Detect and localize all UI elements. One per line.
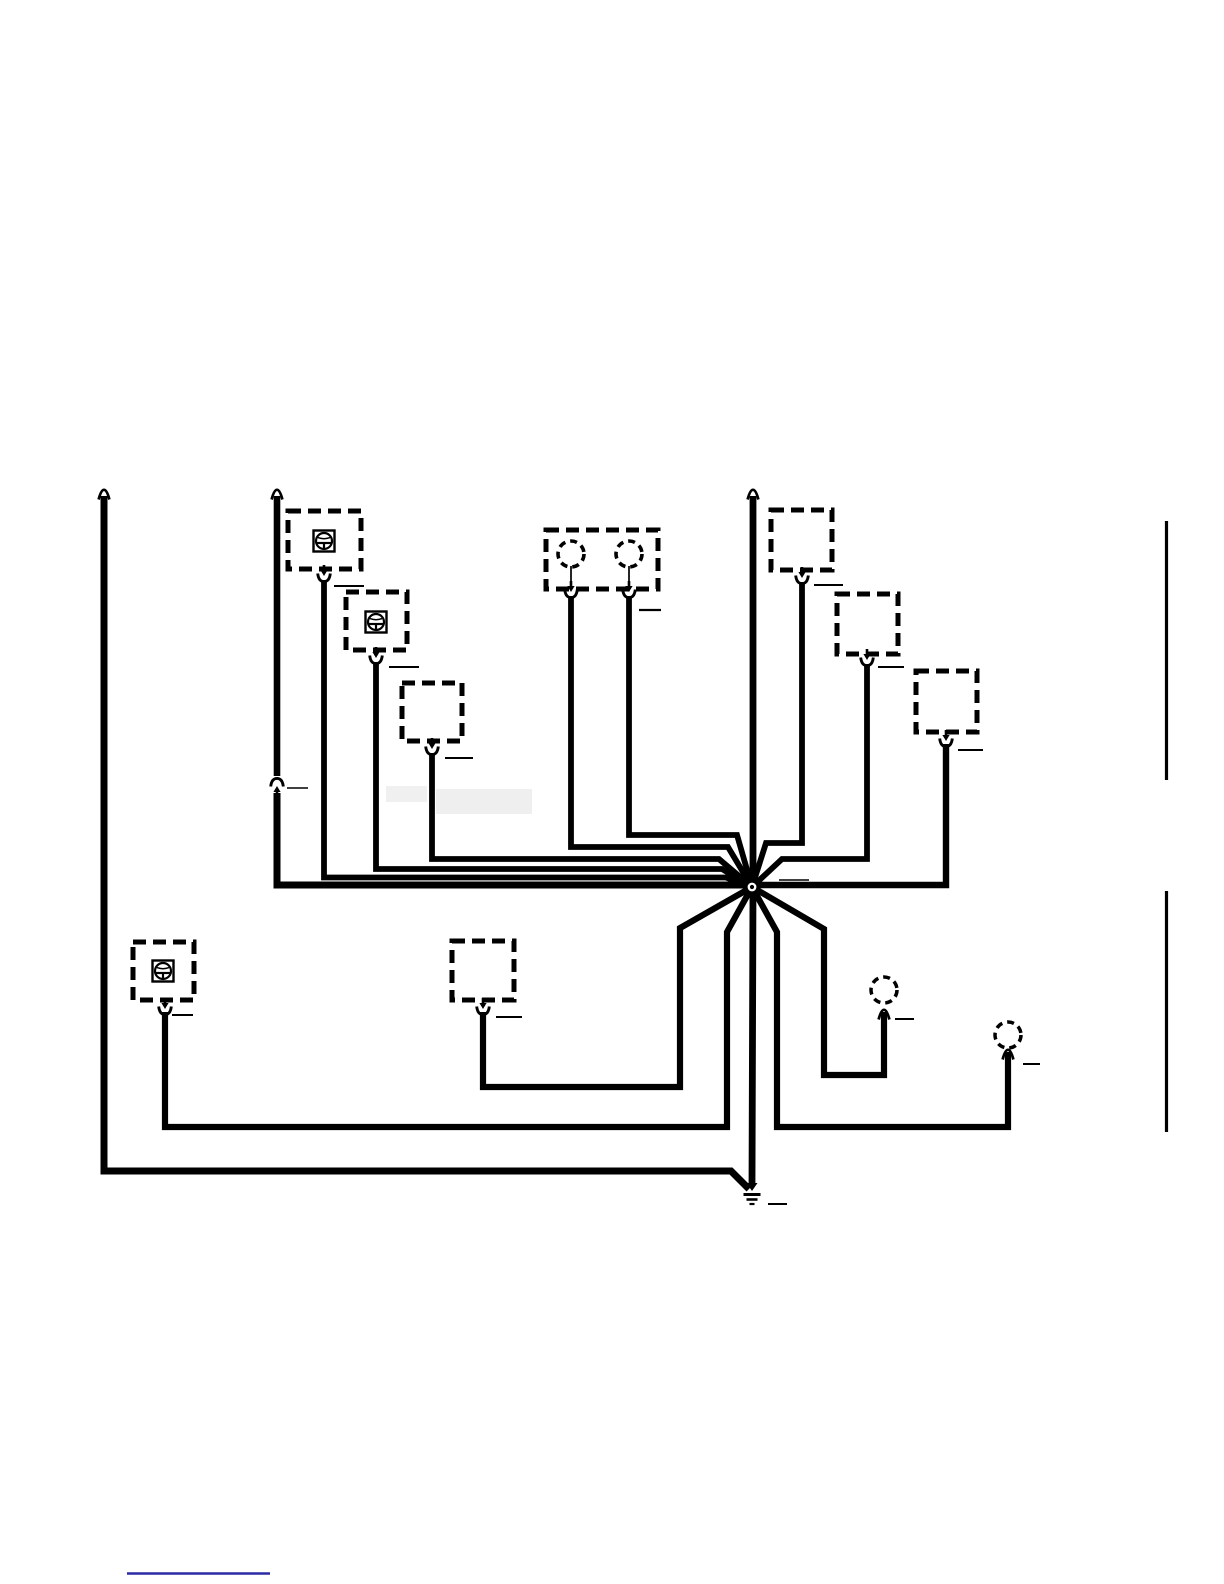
- wire W1 battery feed left: [104, 496, 749, 1189]
- lamp circle left: [558, 541, 584, 567]
- pin right circle lead: [625, 581, 632, 592]
- arrow into circle B1: [879, 1010, 890, 1020]
- box L3 connector: [402, 683, 462, 741]
- label under bottom empty box: [496, 1016, 522, 1018]
- ground symbol: [744, 1183, 761, 1204]
- pin under box L2: [372, 647, 379, 658]
- bulb circle B1: [871, 977, 897, 1003]
- symbol in box L1: [314, 531, 335, 552]
- wire junction to bulb circle B2: [752, 887, 1008, 1127]
- thin lead right lamp circle: [628, 566, 630, 586]
- pin under box R3: [942, 730, 949, 741]
- cup under box R3: [940, 739, 953, 747]
- wire from box L2: [376, 662, 752, 887]
- label under box L1: [334, 585, 364, 587]
- wire W11 center vertical top to ground: [752, 496, 753, 1184]
- cup under bottom empty box: [477, 1007, 490, 1015]
- label at mid connector W2: [287, 787, 308, 789]
- revision bar upper: [1165, 521, 1168, 780]
- label at junction: [779, 879, 809, 881]
- cup top of left circle wire: [565, 590, 578, 598]
- wire from box R2: [752, 664, 867, 887]
- wire W2 junction to right riser: [748, 744, 946, 885]
- pin under box R2: [863, 649, 870, 660]
- label under box R3: [958, 749, 983, 751]
- label under box R2: [878, 666, 904, 668]
- cup top of right circle wire: [623, 590, 636, 598]
- junction ring G: [743, 878, 760, 895]
- connector cup mid W2: [271, 778, 284, 786]
- pin under bottom empty box: [479, 998, 486, 1009]
- cup under bottom left box: [159, 1007, 172, 1015]
- cup top of R1 wire: [796, 576, 809, 584]
- thin lead left lamp circle: [570, 566, 572, 586]
- box R1 connector: [771, 510, 832, 570]
- wire junction to bottom left box: [165, 887, 752, 1127]
- pin under box L3: [428, 738, 435, 749]
- label under box L3: [445, 757, 473, 759]
- symbol in bottom left box: [153, 961, 174, 982]
- wire from box L3: [432, 753, 752, 887]
- arrow into circle B2: [1003, 1050, 1014, 1060]
- arrow top of W11: [748, 490, 759, 500]
- box L1 connector: [288, 511, 361, 569]
- box L2 connector: [346, 592, 407, 650]
- pin under box R1: [798, 567, 805, 578]
- wire from left circle to junction: [571, 596, 752, 887]
- wire junction to bulb circle B1: [752, 887, 884, 1075]
- pin under box L1: [320, 565, 327, 576]
- highlight band left: [386, 786, 427, 802]
- arrow top of W2: [272, 490, 283, 500]
- label under bottom left box: [172, 1014, 193, 1016]
- label at bulb B2: [1023, 1063, 1040, 1065]
- box R3 connector: [916, 671, 977, 732]
- highlight band right: [436, 789, 532, 814]
- cup top of L2 wire: [370, 656, 383, 664]
- wire junction to bottom empty box: [483, 887, 752, 1087]
- label under lamp box: [639, 609, 661, 611]
- wire from box L1: [324, 580, 752, 887]
- box bottom left connector: [133, 942, 194, 1000]
- label at bulb B1: [895, 1018, 914, 1020]
- box bottom empty connector: [452, 941, 514, 1000]
- arrow top of W1: [99, 490, 110, 500]
- lamp circle right: [616, 541, 642, 567]
- cup top of L1 wire: [318, 574, 331, 582]
- footer link line: [127, 1572, 270, 1574]
- wire from box R1: [752, 582, 802, 887]
- bulb circle B2: [995, 1022, 1021, 1048]
- label under box L2: [389, 666, 419, 668]
- label at ground: [768, 1203, 787, 1205]
- label under box R1: [814, 584, 843, 586]
- revision bar lower: [1165, 891, 1168, 1132]
- wire W2 upper segment: [274, 496, 281, 776]
- cup top of R2 wire: [861, 658, 874, 666]
- symbol in box L2: [366, 612, 387, 633]
- box R2 connector: [837, 594, 898, 654]
- box lamp pair: [546, 530, 658, 589]
- wire from right circle to junction: [629, 596, 752, 887]
- pin left circle lead: [567, 581, 574, 592]
- pin under bottom left box: [161, 998, 168, 1009]
- wire W2 lower segment to junction: [277, 793, 760, 885]
- connector pin mid W2: [273, 786, 280, 797]
- cup top of L3 wire: [426, 747, 439, 755]
